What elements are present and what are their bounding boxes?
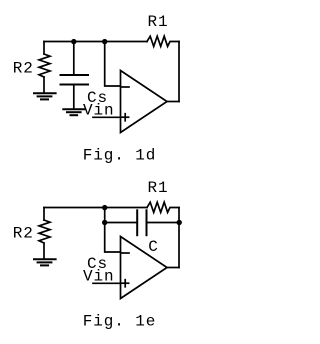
- svg-text:Vin: Vin: [83, 102, 115, 120]
- svg-text:R1: R1: [148, 179, 169, 197]
- wire: feedback right vertical fig 1d: [178, 42, 180, 102]
- op-amp U1 non-inverting pin mark (+): [122, 116, 129, 118]
- capacitor C (fig 1e): [136, 210, 138, 235]
- resistor R2 (fig 1e): [39, 220, 50, 243]
- svg-text:Vin: Vin: [83, 268, 115, 286]
- wire: rail corner down to R2: [43, 42, 45, 55]
- svg-text:R2: R2: [13, 224, 34, 242]
- svg-text:R2: R2: [13, 59, 34, 77]
- resistor R2 (fig 1d): [39, 54, 50, 77]
- wire: top rail (R2 node to R1) fig 1d: [44, 41, 147, 43]
- capacitor Cs (fig 1d): [61, 74, 89, 76]
- svg-text:R1: R1: [148, 13, 169, 31]
- ground (below Cs) fig 1d: [63, 108, 84, 110]
- resistor R1 (fig 1e): [147, 202, 179, 212]
- wire: top rail fig 1e: [44, 207, 147, 209]
- wire: non-inverting input Vin underline fig 1e: [93, 282, 121, 284]
- wire: R2 to ground: [43, 77, 45, 93]
- wire: rail to capacitor Cs: [73, 42, 75, 76]
- wire: rail corner down to R2 fig 1e: [43, 208, 45, 221]
- wire: non-inverting input Vin underline fig 1d: [93, 116, 121, 118]
- op-amp U2 inverting pin mark (-): [122, 252, 129, 254]
- wire: op-amp output fig 1e: [167, 267, 179, 269]
- wire: Cs to ground: [73, 85, 75, 109]
- node: junction dot (inverting node) fig 1d: [102, 39, 107, 44]
- node: junction dot (top rail) fig 1e: [102, 205, 107, 210]
- op-amp U1 inverting pin mark (-): [122, 86, 129, 88]
- node: junction dot (capacitor C branch left) fig 1e: [102, 220, 107, 225]
- svg-text:C: C: [148, 238, 159, 256]
- ground (below R2) fig 1e: [34, 258, 56, 260]
- op-amp U2 non-inverting pin mark (+): [122, 282, 129, 284]
- wire: capacitor C branch left fig 1e: [105, 222, 138, 224]
- resistor R1 (fig 1d): [147, 36, 179, 46]
- wire: feedback right vertical fig 1e: [178, 208, 180, 268]
- node: junction dot (Cs tap) fig 1d: [71, 39, 76, 44]
- wire: op-amp output fig 1d: [167, 101, 179, 103]
- wire: R2 to ground fig 1e: [43, 243, 45, 259]
- ground (below R2) fig 1d: [34, 92, 56, 94]
- op-amp U2 (fig 1e): [121, 237, 168, 299]
- wire: inverting input (node to op-amp minus) fig 1e: [105, 208, 121, 253]
- wire: inverting input (node to op-amp minus) fig 1d: [105, 42, 121, 87]
- wire: capacitor C branch right fig 1e: [147, 222, 180, 224]
- node: junction dot (capacitor C branch right) fig 1e: [177, 220, 182, 225]
- svg-text:Fig. 1d: Fig. 1d: [83, 146, 157, 164]
- svg-text:Fig. 1e: Fig. 1e: [83, 312, 157, 330]
- op-amp U1 (fig 1d): [121, 71, 168, 133]
